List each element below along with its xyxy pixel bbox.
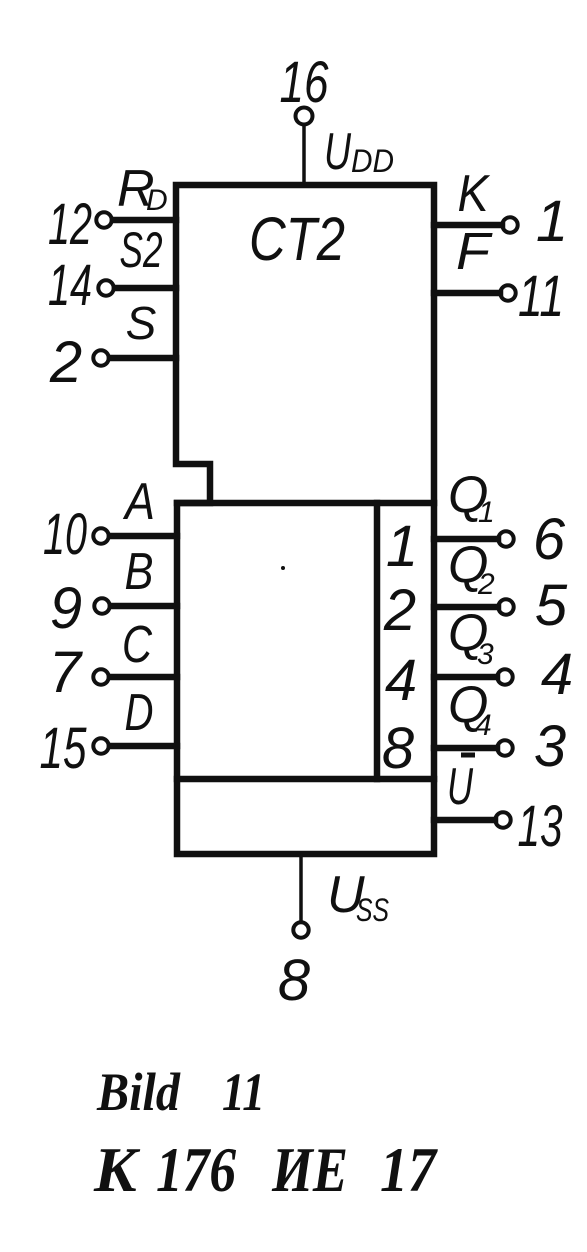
pin 7 C wire <box>110 674 177 681</box>
pin 11 F wire <box>434 290 500 297</box>
pin 1 terminal circle <box>502 217 517 232</box>
pin 2 terminal circle <box>93 350 108 365</box>
svg-text:11: 11 <box>518 264 564 329</box>
caption K 176 IE 17 <box>93 1134 439 1205</box>
pin 6 terminal circle <box>498 531 513 546</box>
svg-text:12: 12 <box>48 192 92 257</box>
svg-text:2: 2 <box>383 578 416 643</box>
pin 8 USS wire <box>299 854 303 922</box>
svg-text:2: 2 <box>49 330 82 395</box>
pin 14 S2 wire <box>115 285 176 292</box>
pin label Q3 <box>448 604 494 671</box>
svg-text:176: 176 <box>156 1134 236 1205</box>
pin label RD <box>117 160 168 218</box>
pin 3 Q4 wire <box>434 745 497 752</box>
pin label K <box>458 165 491 223</box>
pin number 1 <box>536 189 568 254</box>
IC U1 block outline (CT2 counter) <box>176 185 434 854</box>
pin label C <box>122 616 152 674</box>
svg-text:U: U <box>324 123 351 181</box>
weight label 1 <box>386 514 418 579</box>
pin 13 terminal circle <box>495 812 510 827</box>
inner column divider <box>374 503 381 779</box>
svg-text:B: B <box>125 543 154 601</box>
svg-text:Bild: Bild <box>96 1062 181 1122</box>
svg-text:8: 8 <box>382 716 414 781</box>
pin 4 Q3 wire <box>434 674 497 681</box>
caption Bild 11 <box>96 1062 265 1122</box>
pin label U-bar <box>447 755 475 816</box>
svg-text:1: 1 <box>536 189 568 254</box>
pin number 7 <box>49 640 84 705</box>
svg-text:S: S <box>126 297 157 349</box>
pin label Q1 <box>448 466 495 529</box>
pin 3 terminal circle <box>497 740 512 755</box>
pin number 2 <box>49 330 82 395</box>
svg-text:2: 2 <box>477 568 495 601</box>
svg-text:F: F <box>456 223 493 281</box>
net label USS <box>327 866 389 928</box>
pin 9 B wire <box>111 603 177 610</box>
pin 10 A wire <box>110 533 177 540</box>
pin 15 terminal circle <box>93 738 108 753</box>
pin 12 RD wire <box>113 217 176 224</box>
pin label F <box>456 223 493 281</box>
svg-text:CT2: CT2 <box>249 205 345 273</box>
pin label S <box>126 297 157 349</box>
pin 15 D wire <box>110 743 177 750</box>
svg-text:3: 3 <box>477 638 494 671</box>
pin 10 terminal circle <box>93 528 108 543</box>
pin 16 UDD terminal wire <box>302 126 306 185</box>
svg-text:4: 4 <box>385 648 417 713</box>
pin number 11 <box>518 264 564 329</box>
pin 8 terminal circle <box>293 922 308 937</box>
pin 4 terminal circle <box>497 669 512 684</box>
svg-text:K: K <box>93 1134 141 1205</box>
pin label S2 <box>120 222 163 278</box>
svg-text:14: 14 <box>48 253 92 318</box>
pin number 12 <box>48 192 92 257</box>
pin 14 terminal circle <box>98 280 113 295</box>
pin 9 terminal circle <box>94 598 109 613</box>
lower block top edge <box>177 500 434 507</box>
svg-text:9: 9 <box>50 576 82 641</box>
stray ink speck inside block <box>281 566 285 570</box>
svg-text:4: 4 <box>475 709 492 742</box>
pin number 8 <box>278 948 310 1013</box>
pin 7 terminal circle <box>93 669 108 684</box>
pin number 13 <box>518 794 563 859</box>
svg-text:D: D <box>146 184 168 217</box>
svg-text:7: 7 <box>49 640 84 705</box>
svg-text:U: U <box>447 758 473 816</box>
pin label B <box>125 543 154 601</box>
pin number 15 <box>40 716 88 781</box>
svg-text:17: 17 <box>380 1134 439 1205</box>
svg-text:K: K <box>458 165 491 223</box>
pin number 6 <box>533 507 566 572</box>
svg-text:S2: S2 <box>120 222 163 278</box>
pin label D <box>125 684 154 742</box>
svg-text:ИЕ: ИЕ <box>271 1134 348 1205</box>
svg-text:DD: DD <box>351 143 394 179</box>
pin label A <box>122 473 155 531</box>
svg-text:13: 13 <box>518 794 563 859</box>
svg-text:SS: SS <box>356 892 389 928</box>
svg-text:15: 15 <box>40 716 88 781</box>
svg-text:11: 11 <box>222 1062 265 1122</box>
label CT2 <box>249 205 345 273</box>
pin 6 Q1 wire <box>434 536 498 543</box>
svg-text:C: C <box>122 616 152 674</box>
svg-text:A: A <box>122 473 155 531</box>
svg-text:8: 8 <box>278 948 310 1013</box>
svg-text:5: 5 <box>535 573 568 638</box>
pin 13 U-bar wire <box>434 817 495 824</box>
pin 5 Q2 wire <box>434 604 498 611</box>
svg-text:6: 6 <box>533 507 566 572</box>
pin number 3 <box>534 714 566 779</box>
svg-text:D: D <box>125 684 154 742</box>
svg-text:10: 10 <box>43 502 87 567</box>
svg-text:4: 4 <box>541 642 573 707</box>
svg-text:1: 1 <box>478 496 495 529</box>
pin 2 S wire <box>110 355 176 362</box>
pin number 16 <box>280 50 330 115</box>
pin label Q4 <box>448 676 492 742</box>
weight label 4 <box>385 648 417 713</box>
pin number 9 <box>50 576 82 641</box>
inner horizontal divider <box>177 776 434 783</box>
pin number 14 <box>48 253 92 318</box>
svg-text:16: 16 <box>280 50 330 115</box>
pin 5 terminal circle <box>498 599 513 614</box>
svg-text:3: 3 <box>534 714 566 779</box>
weight label 8 <box>382 716 414 781</box>
weight label 2 <box>383 578 416 643</box>
svg-text:1: 1 <box>386 514 418 579</box>
net label UDD <box>324 123 394 181</box>
pin number 10 <box>43 502 87 567</box>
pin number 5 <box>535 573 568 638</box>
pin label Q2 <box>448 536 495 601</box>
pin 12 terminal circle <box>96 212 111 227</box>
pin 16 terminal circle <box>296 108 313 125</box>
pin 11 terminal circle <box>500 285 515 300</box>
pin number 4 <box>541 642 573 707</box>
pin 1 K wire <box>434 222 502 229</box>
